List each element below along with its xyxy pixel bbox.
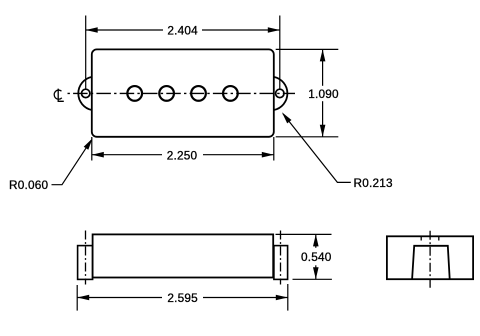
dim 2.404 left arrow [86,27,98,33]
dim 2.250 left arrow [92,152,104,158]
pole hole 4 [223,86,238,101]
dim 2.595 left extension line [76,285,78,311]
end view inner hump [412,246,450,279]
dim 0.540 top arrow [313,234,319,246]
svg-text:2.404: 2.404 [167,24,198,38]
svg-text:2.250: 2.250 [167,148,198,162]
leader R0.213 arrow [282,112,292,123]
dim 2.250 dimension line [92,154,162,156]
svg-text:0.540: 0.540 [301,250,332,264]
dim 0.540 dimension line [315,234,317,247]
dim 2.404 left extension line [85,16,87,90]
pole hole 3 [191,86,206,101]
top view: pickup cover body outline [92,49,274,136]
svg-text:2.595: 2.595 [167,291,198,305]
dim 2.595 left arrow [77,295,89,301]
dim 1.090 top arrow [320,49,326,61]
centerline symbol CL [54,89,64,102]
dim 2.595 right extension line [287,284,289,311]
end view left tick [420,236,422,240]
dim 2.250 right extension line [273,137,275,161]
dim 2.595 dimension line [77,297,162,299]
dim 1.090 bottom extension line [276,136,339,138]
svg-text:1.090: 1.090 [308,87,339,101]
dim 0.540 bottom arrow [313,267,319,279]
dim 2.404 right arrow [268,27,280,33]
right ear screw hole [276,89,284,97]
pole hole 1 [127,86,142,101]
horizontal centerline [64,92,295,94]
dim 2.404 dimension line [86,29,163,31]
leader R0.060 line [52,140,92,185]
side view right flange centerline [280,231,282,285]
dim 2.250 right arrow [262,152,274,158]
right ear arc [274,77,288,110]
dim 1.090 bottom arrow [320,125,326,137]
left ear screw hole [82,89,90,97]
leader R0.060 arrow [84,138,93,150]
leader R0.213 line [283,114,351,183]
dim 0.540 top extension line [276,233,332,235]
dim 1.090 dimension line [322,49,324,85]
end view right tick [438,236,440,240]
side view right flange [274,246,288,280]
pole hole 2 [159,86,174,101]
dim 2.250 left extension line [91,137,93,161]
svg-text:R0.213: R0.213 [354,176,393,190]
dim 2.404 right extension line [279,16,281,90]
left ear arc [78,77,92,110]
side view body box [93,234,274,277]
end view outline [387,236,473,279]
dim 1.090 top extension line [276,48,339,50]
end view centerline [429,231,431,290]
dim 0.540 bottom extension line [293,278,332,280]
side view left flange [78,246,93,280]
dim 2.595 right arrow [276,295,288,301]
svg-text:R0.060: R0.060 [9,178,48,192]
side view left flange centerline [85,231,87,285]
